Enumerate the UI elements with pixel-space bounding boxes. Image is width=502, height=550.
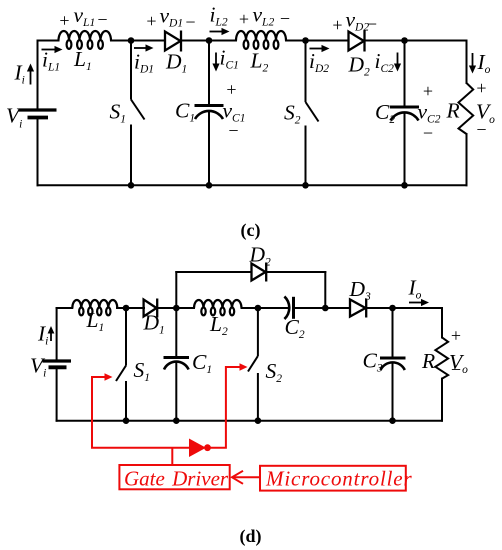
svg-text:+: + [476, 78, 486, 98]
arrow i_D1 (c) [134, 44, 154, 51]
switch S1 (d) [116, 308, 126, 421]
svg-text:R: R [446, 99, 460, 123]
diode D3 (d) [350, 299, 366, 318]
wire top rail L2 to D2 [286, 40, 349, 42]
diode D1 (c) [165, 31, 181, 52]
wire left rail upper [37, 41, 39, 111]
wire bypass top left [176, 271, 251, 273]
arrow i_L1 (c) [42, 46, 63, 53]
node junction C1 top (c) [206, 37, 213, 44]
wire bypass riser left [175, 272, 177, 308]
wire D1 to L2 [158, 307, 195, 309]
wire top rail D2 to right corner [364, 40, 467, 42]
arrow Microcontroller to Gate Driver [232, 471, 260, 484]
inductor L1 (c) [59, 31, 112, 49]
svg-text:(c): (c) [241, 220, 261, 241]
arrow I_o (d) [409, 299, 429, 306]
node junction S1 bottom (d) [123, 417, 130, 424]
arrow I_o (c) [469, 53, 476, 74]
node junction S2 top (c) [302, 37, 309, 44]
wire bypass riser right [324, 272, 326, 308]
wire L2 to C2 [242, 307, 289, 309]
svg-text:+: + [146, 11, 156, 31]
node junction S1 top (c) [128, 37, 135, 44]
node junction C2 bottom (c) [401, 182, 408, 189]
arrow i_C2 (c) [394, 53, 401, 72]
inductor L2 (d) [194, 300, 242, 315]
svg-text:−: − [228, 121, 238, 141]
node junction C1 bottom (d) [173, 417, 180, 424]
svg-text:+: + [226, 80, 236, 100]
node junction C1 bottom (c) [206, 182, 213, 189]
wire left rail lower [37, 118, 39, 186]
node junction S1 top (d) [123, 305, 130, 312]
battery Vi (c) [19, 110, 57, 118]
resistor R (c) [459, 83, 474, 134]
wire main rail left segment [57, 307, 73, 309]
wire right rail lower [441, 379, 443, 421]
wire top rail D1 to L2 [181, 40, 237, 42]
node junction C2-bypass-D3 (d) [322, 305, 329, 312]
svg-text:+: + [332, 15, 342, 35]
diode D2 (d) [252, 263, 267, 282]
svg-text:−: − [185, 12, 195, 32]
svg-text:+: + [59, 11, 69, 31]
wire bypass top right [267, 271, 326, 273]
arrowhead red at S2 [240, 363, 248, 371]
svg-text:−: − [423, 123, 433, 143]
node junction S2 bottom (d) [255, 417, 262, 424]
arrowhead red at S1 [105, 373, 113, 381]
Gate Driver box [119, 465, 229, 489]
arrow i_L2 (c) [210, 28, 230, 35]
inductor L1 (d) [72, 300, 117, 315]
capacitor C1 (d) [164, 308, 190, 421]
switch S1 (c) [131, 41, 145, 186]
node junction S2 top (d) [255, 305, 262, 312]
wire top rail L1 to D1 [111, 40, 165, 42]
capacitor C2 (c) [390, 41, 419, 186]
diode D2 (c) [349, 31, 365, 52]
wire red S1 drive [92, 377, 189, 448]
svg-text:R: R [421, 349, 435, 373]
wire D3 to right corner [367, 307, 443, 309]
svg-text:Microcontroller: Microcontroller [265, 467, 413, 491]
svg-text:(d): (d) [240, 526, 262, 547]
svg-text:+: + [451, 326, 461, 346]
svg-text:−: − [451, 360, 461, 380]
capacitor C3 (d) [380, 308, 406, 421]
node junction S2 bottom (c) [302, 182, 309, 189]
junction dot red [204, 444, 211, 451]
battery Vi (d) [43, 361, 72, 367]
svg-text:−: − [367, 14, 377, 34]
arrow I_i (d) [48, 326, 55, 341]
capacitor C1 (c) [195, 41, 224, 186]
capacitor C2 (d) series [284, 297, 293, 320]
wire top rail left segment [38, 40, 59, 42]
arrow I_i (c) [27, 64, 34, 85]
svg-text:−: − [476, 120, 486, 140]
Microcontroller box [260, 466, 406, 491]
wire right rail lower [466, 134, 468, 185]
wire L1 to node [117, 307, 144, 309]
switch S2 (d) [248, 308, 258, 421]
inductor L2 (c) [236, 31, 286, 49]
resistor R (d) [435, 337, 448, 378]
diode D1 (d) [144, 299, 158, 318]
svg-text:+: + [239, 9, 249, 29]
wire left rail upper [56, 308, 58, 361]
arrow i_D2 (c) [310, 45, 330, 52]
node junction C3 top (d) [389, 305, 396, 312]
node junction C2 top (c) [401, 37, 408, 44]
node junction D1-L2-bypass (d) [173, 305, 180, 312]
wire right rail upper [441, 308, 443, 338]
wire red S2 drive [206, 367, 242, 448]
wire right rail upper [466, 41, 468, 84]
svg-text:+: + [423, 81, 433, 101]
switch S2 (c) [306, 41, 319, 186]
wire left rail lower [56, 367, 58, 420]
wire C2 to D3 [294, 307, 351, 309]
wire bottom rail [38, 184, 467, 186]
node junction S1 bottom (c) [128, 182, 135, 189]
wire bottom rail [57, 420, 442, 422]
buffer triangle red [189, 439, 206, 458]
svg-text:Gate Driver: Gate Driver [124, 467, 229, 491]
svg-text:−: − [280, 9, 290, 29]
node junction C3 bottom (d) [389, 417, 396, 424]
svg-text:−: − [97, 10, 107, 30]
wire red drop to gate driver box [171, 448, 173, 465]
arrow i_C1 (c) [212, 53, 219, 72]
